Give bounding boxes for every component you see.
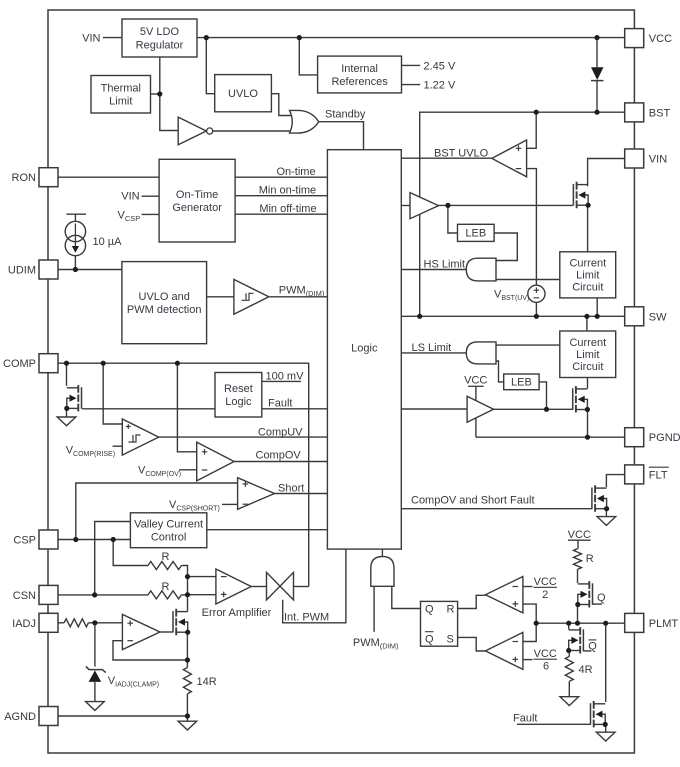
svg-text:Min on-time: Min on-time (259, 184, 316, 196)
block Current Limit Circuit LS (560, 331, 616, 378)
wire IADJ op-amp minus feedback (113, 641, 187, 660)
buffer LS gate driver (467, 396, 493, 422)
svg-text:Limit: Limit (109, 96, 132, 108)
svg-text:CSN: CSN (13, 590, 36, 602)
wire COMP FET gate / reset line (82, 408, 215, 410)
svg-text:Current: Current (569, 337, 606, 349)
svg-text:CompUV: CompUV (258, 426, 303, 438)
svg-text:VCSP: VCSP (118, 209, 141, 223)
svg-text:Reset: Reset (224, 383, 253, 395)
wire current source top bar feed (66, 214, 86, 221)
wire Int PWM switch to COMP (294, 586, 309, 588)
wire IADJ op-amp output to FET gate (160, 631, 173, 633)
svg-text:100 mV: 100 mV (266, 371, 305, 383)
resistor 14R (183, 668, 191, 694)
wire COMP FET drain (66, 363, 68, 386)
svg-text:VCOMP(OV): VCOMP(OV) (138, 465, 181, 479)
wire Logic to HS driver (401, 205, 410, 207)
svg-text:CompOV: CompOV (256, 449, 302, 461)
svg-text:VCC: VCC (534, 648, 557, 660)
wire Current Limit Circuit to SW line (596, 298, 598, 316)
svg-text:Error Amplifier: Error Amplifier (202, 607, 272, 619)
wire Current Limit Circuit to HS AND gate (496, 279, 560, 281)
op-amp IADJ buffer (122, 614, 160, 649)
wire Fault to fault FET gate (517, 723, 590, 725)
svg-text:IADJ: IADJ (12, 618, 36, 630)
wire node to fault FET drain (605, 623, 607, 702)
svg-text:R: R (162, 581, 170, 593)
AND gate PWM dim (points up) (371, 557, 394, 587)
transistor HS switch (573, 182, 590, 208)
svg-text:VCSP(SHORT): VCSP(SHORT) (169, 499, 220, 513)
svg-text:RON: RON (12, 172, 37, 184)
wire UVLO output to OR gate (271, 94, 290, 116)
transistor LS switch (573, 386, 590, 412)
svg-text:Circuit: Circuit (572, 282, 603, 294)
wire upper comparator minus to VCC/2 (523, 586, 533, 588)
svg-text:Standby: Standby (325, 109, 366, 121)
wire FLT FET source to ground (605, 509, 607, 517)
svg-text:2.45 V: 2.45 V (424, 60, 456, 72)
wire Logic bottom to dim AND gate (381, 549, 383, 557)
wire CompOV output to Logic (234, 461, 327, 463)
svg-text:Valley Current: Valley Current (134, 519, 203, 531)
wire Q FET source to node (577, 605, 579, 624)
wire Int PWM to Logic bottom (283, 549, 346, 623)
wire IADJ FET source to 14R (186, 632, 188, 667)
svg-text:R: R (162, 551, 170, 563)
svg-text:References: References (331, 76, 388, 88)
block LEB HS (458, 224, 495, 241)
pin VCC (625, 29, 672, 48)
svg-text:PLMT: PLMT (649, 618, 679, 630)
wire 100 mV stub (262, 380, 301, 382)
wire HS driver output to HS FET gate (439, 204, 574, 206)
wire LS driver output to LS FET gate (494, 408, 573, 410)
svg-text:VCOMP(RISE): VCOMP(RISE) (66, 445, 115, 459)
pin SW (625, 307, 667, 326)
buffer HS gate driver (410, 193, 439, 219)
svg-text:COMP: COMP (3, 358, 36, 370)
svg-text:HS Limit: HS Limit (424, 258, 466, 270)
wire CSP to Short comparator plus input (76, 483, 238, 540)
svg-text:BST: BST (649, 107, 671, 119)
wire lower comparator plus to VCC/6 (523, 659, 533, 661)
wire IADJ pin to input resistor (58, 622, 64, 624)
wire CSP branch to upper resistor R (113, 540, 148, 566)
wire LS Limit to Logic (401, 352, 467, 354)
pin FLT (625, 465, 669, 484)
svg-text:AGND: AGND (4, 711, 36, 723)
voltage source VBST(UV) (528, 285, 545, 302)
OR gate standby (290, 110, 319, 133)
wire RON to On-Time Generator (58, 176, 159, 178)
block UVLO and PWM detection (122, 262, 207, 344)
wire PWM(DIM) to Logic (270, 296, 328, 298)
wire COMP to rise comparator plus input (103, 363, 122, 424)
svg-text:Internal: Internal (341, 63, 378, 75)
transistor FLT open-drain (592, 485, 609, 511)
wire R to Q FET drain (577, 569, 579, 583)
wire VCC to diode anode (596, 38, 598, 68)
block On-Time Generator (159, 159, 235, 242)
wire UDIM to UVLO-PWM detection block (58, 269, 122, 271)
pin BST (625, 103, 671, 122)
svg-text:VIN: VIN (649, 154, 667, 166)
wire error amp output to Int PWM switch (251, 586, 266, 588)
wire VIN pin to HS FET drain (588, 159, 625, 187)
wire HS Limit to Logic (401, 269, 467, 271)
svg-text:VCC: VCC (649, 33, 672, 45)
svg-text:4R: 4R (579, 664, 593, 676)
svg-text:LEB: LEB (511, 377, 532, 389)
svg-text:UDIM: UDIM (8, 265, 36, 277)
wire CSN line (58, 594, 148, 596)
svg-text:BST UVLO: BST UVLO (434, 147, 489, 159)
resistor 4R (565, 656, 573, 681)
svg-text:Min off-time: Min off-time (259, 203, 316, 215)
wire On-time output (235, 176, 327, 178)
svg-text:Short: Short (278, 482, 304, 494)
wire HS LEB output to AND gate (494, 233, 517, 261)
pin VIN (625, 149, 667, 168)
wire 2.45V reference output (402, 64, 421, 66)
svg-text:CSP: CSP (13, 535, 36, 547)
wire VIN input to LDO (103, 37, 122, 39)
wire COMP line and drop to Int PWM switch (58, 363, 309, 586)
wire current source to UDIM line (74, 256, 76, 270)
AND gate HS Limit (points left) (466, 258, 496, 281)
wire BST UVLO comparator minus input to VBST(UV) (527, 169, 537, 286)
svg-text:Q: Q (425, 604, 434, 616)
wire Min on-time output (235, 195, 327, 197)
wire LS AND gate to LS LEB (496, 361, 504, 382)
transistor Fault PLMT pulldown (591, 701, 608, 727)
svg-text:VCC: VCC (568, 529, 591, 541)
wire IADJ node to zener clamp (94, 623, 96, 667)
transistor Qbar PLMT (566, 627, 583, 653)
block 5V LDO Regulator (122, 19, 197, 57)
svg-text:VBST(UV): VBST(UV) (494, 289, 529, 303)
wire BST UVLO comparator plus input to BST (527, 112, 537, 148)
wire flip-flop Q to dim AND gate (392, 586, 421, 608)
wire Short output to Logic (275, 493, 328, 495)
ground FLT FET source (597, 517, 616, 526)
wire node to Qbar FET drain (568, 623, 570, 629)
svg-text:R: R (447, 604, 455, 616)
wire lower Current Limit Circuit to LS FET drain (587, 378, 589, 389)
svg-text:PWM(DIM): PWM(DIM) (279, 284, 325, 298)
wire PWM(DIM) input to dim AND gate (373, 586, 375, 632)
wire Q FET gate lead (593, 603, 602, 605)
AND gate LS Limit (points left) (466, 342, 496, 364)
wire Qbar FET source to 4R (568, 651, 570, 657)
svg-text:On-time: On-time (276, 166, 315, 178)
svg-text:R: R (586, 553, 594, 565)
wire VCOMP(OV) input (179, 469, 197, 471)
block LEB LS (504, 374, 539, 390)
wire VBST(UV) to SW line (535, 302, 537, 316)
switch Int PWM (267, 572, 294, 600)
zener diode VIADJ clamp (86, 666, 106, 682)
wire diode cathode to BST (596, 81, 598, 113)
svg-text:Fault: Fault (513, 713, 537, 725)
current source 10 uA (65, 221, 85, 255)
wire VCC rail from LDO to VCC pin (197, 37, 625, 39)
ground 14R AGND (178, 721, 197, 730)
error amplifier (216, 569, 251, 604)
pin CSN (13, 585, 58, 604)
block Internal References (318, 56, 402, 93)
svg-text:Circuit: Circuit (572, 361, 603, 373)
wire PGND line (476, 436, 625, 438)
wire LS LEB output tap (539, 382, 546, 409)
pin PLMT (625, 613, 679, 632)
wire Logic to LS driver (401, 408, 467, 410)
wire fault FET source to ground (605, 725, 607, 733)
wire COMP to CompOV comparator plus input (177, 363, 196, 452)
svg-text:Logic: Logic (351, 343, 378, 355)
svg-text:CompOV and Short Fault: CompOV and Short Fault (411, 494, 535, 506)
wire VIN input to On-Time Generator (142, 195, 160, 197)
wire comparator inputs to PLMT node (523, 604, 536, 641)
svg-text:2: 2 (542, 589, 548, 601)
block Reset Logic (215, 373, 262, 418)
resistor IADJ input (64, 619, 88, 627)
svg-text:Int. PWM: Int. PWM (284, 611, 329, 623)
wire Standby OR output to Logic top (319, 122, 364, 150)
svg-text:UVLO: UVLO (228, 88, 258, 100)
diode VCC to BST (591, 67, 604, 80)
svg-text:Regulator: Regulator (136, 40, 184, 52)
svg-text:Fault: Fault (268, 398, 292, 410)
wire tap to HS LEB input (448, 205, 458, 233)
wire Min off-time output (235, 213, 327, 215)
wire Valley Current Control output to Logic (207, 529, 328, 531)
svg-text:6: 6 (543, 661, 549, 673)
svg-text:10 µA: 10 µA (93, 236, 123, 248)
svg-text:LS Limit: LS Limit (412, 342, 452, 354)
wire COMP FET source to ground (66, 410, 68, 417)
svg-text:14R: 14R (197, 676, 217, 688)
wire PWM detection to schmitt buffer (207, 296, 234, 298)
wire Fault from Reset Logic to Logic (262, 408, 328, 410)
wire LDO bottom to inverter input (160, 57, 178, 131)
svg-text:Limit: Limit (576, 270, 599, 282)
wire Qbar FET gate lead (583, 650, 592, 652)
comparator VCC/2 PLMT (485, 577, 523, 613)
wire branch to UVLO (206, 38, 214, 94)
pin IADJ (12, 613, 58, 632)
wire SW line to lower Current Limit Circuit (586, 316, 588, 331)
wire CSN tap to Valley Current Control upper input (95, 522, 131, 595)
comparator Short (238, 478, 275, 510)
svg-text:VIN: VIN (121, 190, 139, 202)
svg-text:PWM detection: PWM detection (127, 304, 202, 316)
svg-text:VIADJ(CLAMP): VIADJ(CLAMP) (108, 675, 159, 689)
wire error amp minus input (188, 576, 216, 578)
svg-text:FLT: FLT (649, 469, 668, 481)
wire upper comparator output to R input (458, 595, 486, 608)
wire lower R to node (181, 594, 187, 596)
svg-text:S: S (447, 634, 454, 646)
wire branch to Internal References (299, 38, 317, 75)
wire VCOMP(RISE) input (113, 445, 123, 447)
wire VCSP(SHORT) input (222, 503, 238, 505)
wire BST UVLO output to Logic (401, 157, 492, 159)
resistor R upper (148, 562, 181, 570)
svg-text:PGND: PGND (649, 432, 680, 444)
resistor R PLMT chain (574, 549, 582, 570)
svg-text:VIN: VIN (82, 33, 100, 45)
wire CompUV output to Logic (159, 436, 328, 438)
wire VCC supply to resistor R (577, 540, 579, 549)
wire SW line (401, 315, 624, 317)
svg-text:Limit: Limit (576, 349, 599, 361)
wire AGND line (58, 715, 187, 717)
wire FLT FET drain to FLT pin (606, 475, 624, 488)
wire CSP line to Valley Current Control (58, 539, 130, 541)
comparator CompOV (197, 442, 234, 481)
svg-text:Q: Q (588, 640, 597, 652)
svg-text:Logic: Logic (225, 396, 252, 408)
wire LS driver to PGND rail (475, 419, 477, 438)
svg-text:On-Time: On-Time (176, 189, 218, 201)
block Current Limit Circuit HS (560, 252, 616, 298)
svg-text:Generator: Generator (172, 202, 222, 214)
wire HS FET source to Current Limit Circuit (587, 205, 589, 252)
svg-text:Q: Q (597, 592, 606, 604)
block Thermal Limit (91, 76, 151, 114)
resistor R lower (148, 591, 181, 599)
svg-text:Q: Q (425, 634, 434, 646)
svg-text:Thermal: Thermal (101, 83, 141, 95)
ground 4R bottom (560, 697, 579, 706)
pin COMP (3, 354, 58, 373)
wire inverter output to OR gate (213, 130, 292, 132)
pin CSP (13, 530, 58, 549)
svg-text:SW: SW (649, 311, 667, 323)
schmitt buffer PWM detection (234, 279, 269, 314)
wire VCC supply to LS driver (475, 386, 477, 401)
svg-text:UVLO and: UVLO and (139, 291, 190, 303)
wire zener to ground (94, 682, 96, 702)
wire 14R to AGND line and ground (186, 694, 188, 721)
svg-text:Control: Control (151, 532, 186, 544)
pin PGND (625, 428, 680, 447)
block UVLO (215, 75, 272, 112)
wire lower Current Limit Circuit to LS AND gate (496, 344, 560, 346)
svg-text:1.22 V: 1.22 V (424, 80, 456, 92)
wire 1.22V reference output (402, 84, 421, 86)
ground zener anode (86, 702, 105, 711)
ground COMP FET source (57, 417, 76, 426)
ground fault FET source (596, 732, 615, 741)
wire upper R to error amp node (181, 566, 187, 612)
svg-text:LEB: LEB (465, 228, 486, 240)
transistor Q PLMT (575, 581, 592, 607)
pin AGND (4, 707, 58, 726)
inverter (178, 117, 213, 145)
pin RON (12, 168, 58, 187)
wire lower comparator output to S input (458, 637, 486, 651)
svg-text:Current: Current (569, 258, 606, 270)
wire BST line and BST-SW rail through HS driver (420, 112, 625, 316)
svg-text:5V LDO: 5V LDO (140, 26, 180, 38)
wire error amp plus input (188, 594, 216, 596)
pin UDIM (8, 260, 58, 279)
transistor COMP pulldown (64, 385, 81, 411)
block Logic (327, 150, 401, 549)
transistor IADJ current set (173, 609, 190, 635)
RS flip-flop (421, 601, 458, 646)
wire 4R to ground (568, 681, 570, 696)
svg-text:PWM(DIM): PWM(DIM) (353, 637, 399, 651)
wire VCSP input to On-Time Generator (142, 213, 160, 215)
svg-text:VCC: VCC (534, 576, 557, 588)
wire to IADJ op-amp plus input (88, 622, 122, 624)
wire LS FET source to PGND (587, 410, 589, 438)
wire PLMT node line (536, 622, 625, 624)
comparator VCC/6 PLMT (485, 632, 523, 669)
wire Thermal Limit output (151, 93, 160, 95)
comparator BST UVLO (492, 140, 527, 177)
svg-text:VCC: VCC (464, 374, 487, 386)
block Valley Current Control (130, 513, 206, 548)
wire Logic CompOV and Short Fault to FLT FET gate (401, 508, 592, 510)
comparator VCOMP RISE CompUV (122, 419, 158, 455)
